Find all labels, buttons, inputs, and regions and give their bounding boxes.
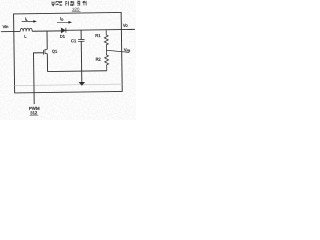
underline under 320 (72, 11, 81, 13)
wire Q1 source down to bottom rail (46, 54, 48, 72)
resistor R2 (105, 50, 109, 71)
svg-text:C1: C1 (71, 38, 77, 43)
svg-text:R1: R1 (95, 33, 101, 38)
diode D1 (61, 28, 65, 33)
gate wire to PWM lead (33, 53, 44, 104)
faint inner line near bottom of box (15, 84, 123, 86)
svg-text:R2: R2 (96, 57, 102, 62)
inductor L (20, 28, 32, 31)
bottom rail (48, 70, 107, 73)
svg-text:ID: ID (60, 16, 63, 22)
title 부스트 변환 장치 (hand-drawn hangul blobs) (52, 1, 86, 6)
wire Vfb tap (106, 50, 129, 53)
svg-text:D1: D1 (60, 34, 66, 39)
wire inductor to diode (32, 30, 61, 32)
resistor R1 (104, 30, 108, 51)
ground symbol (down arrow) (81, 71, 83, 82)
boost converter block box 320 (14, 12, 123, 92)
capacitor C1 plates (78, 40, 84, 42)
underline under 312 (30, 114, 39, 116)
svg-text:VFB: VFB (124, 47, 131, 53)
svg-text:320: 320 (72, 7, 80, 12)
svg-text:Vin: Vin (3, 24, 9, 29)
current arrow IL (22, 20, 34, 22)
svg-text:Vo: Vo (123, 23, 129, 28)
svg-text:IL: IL (25, 16, 28, 22)
current arrow ID (57, 21, 69, 23)
wire Vin input to inductor (1, 30, 20, 32)
transistor Q1 (NMOS) (43, 49, 47, 55)
wire diode to Vo terminal (65, 28, 134, 31)
capacitor C1 wire from top rail (80, 30, 83, 71)
svg-text:312: 312 (30, 110, 38, 115)
wire node to Q1 drain (46, 31, 48, 50)
svg-text:Q1: Q1 (52, 49, 58, 54)
